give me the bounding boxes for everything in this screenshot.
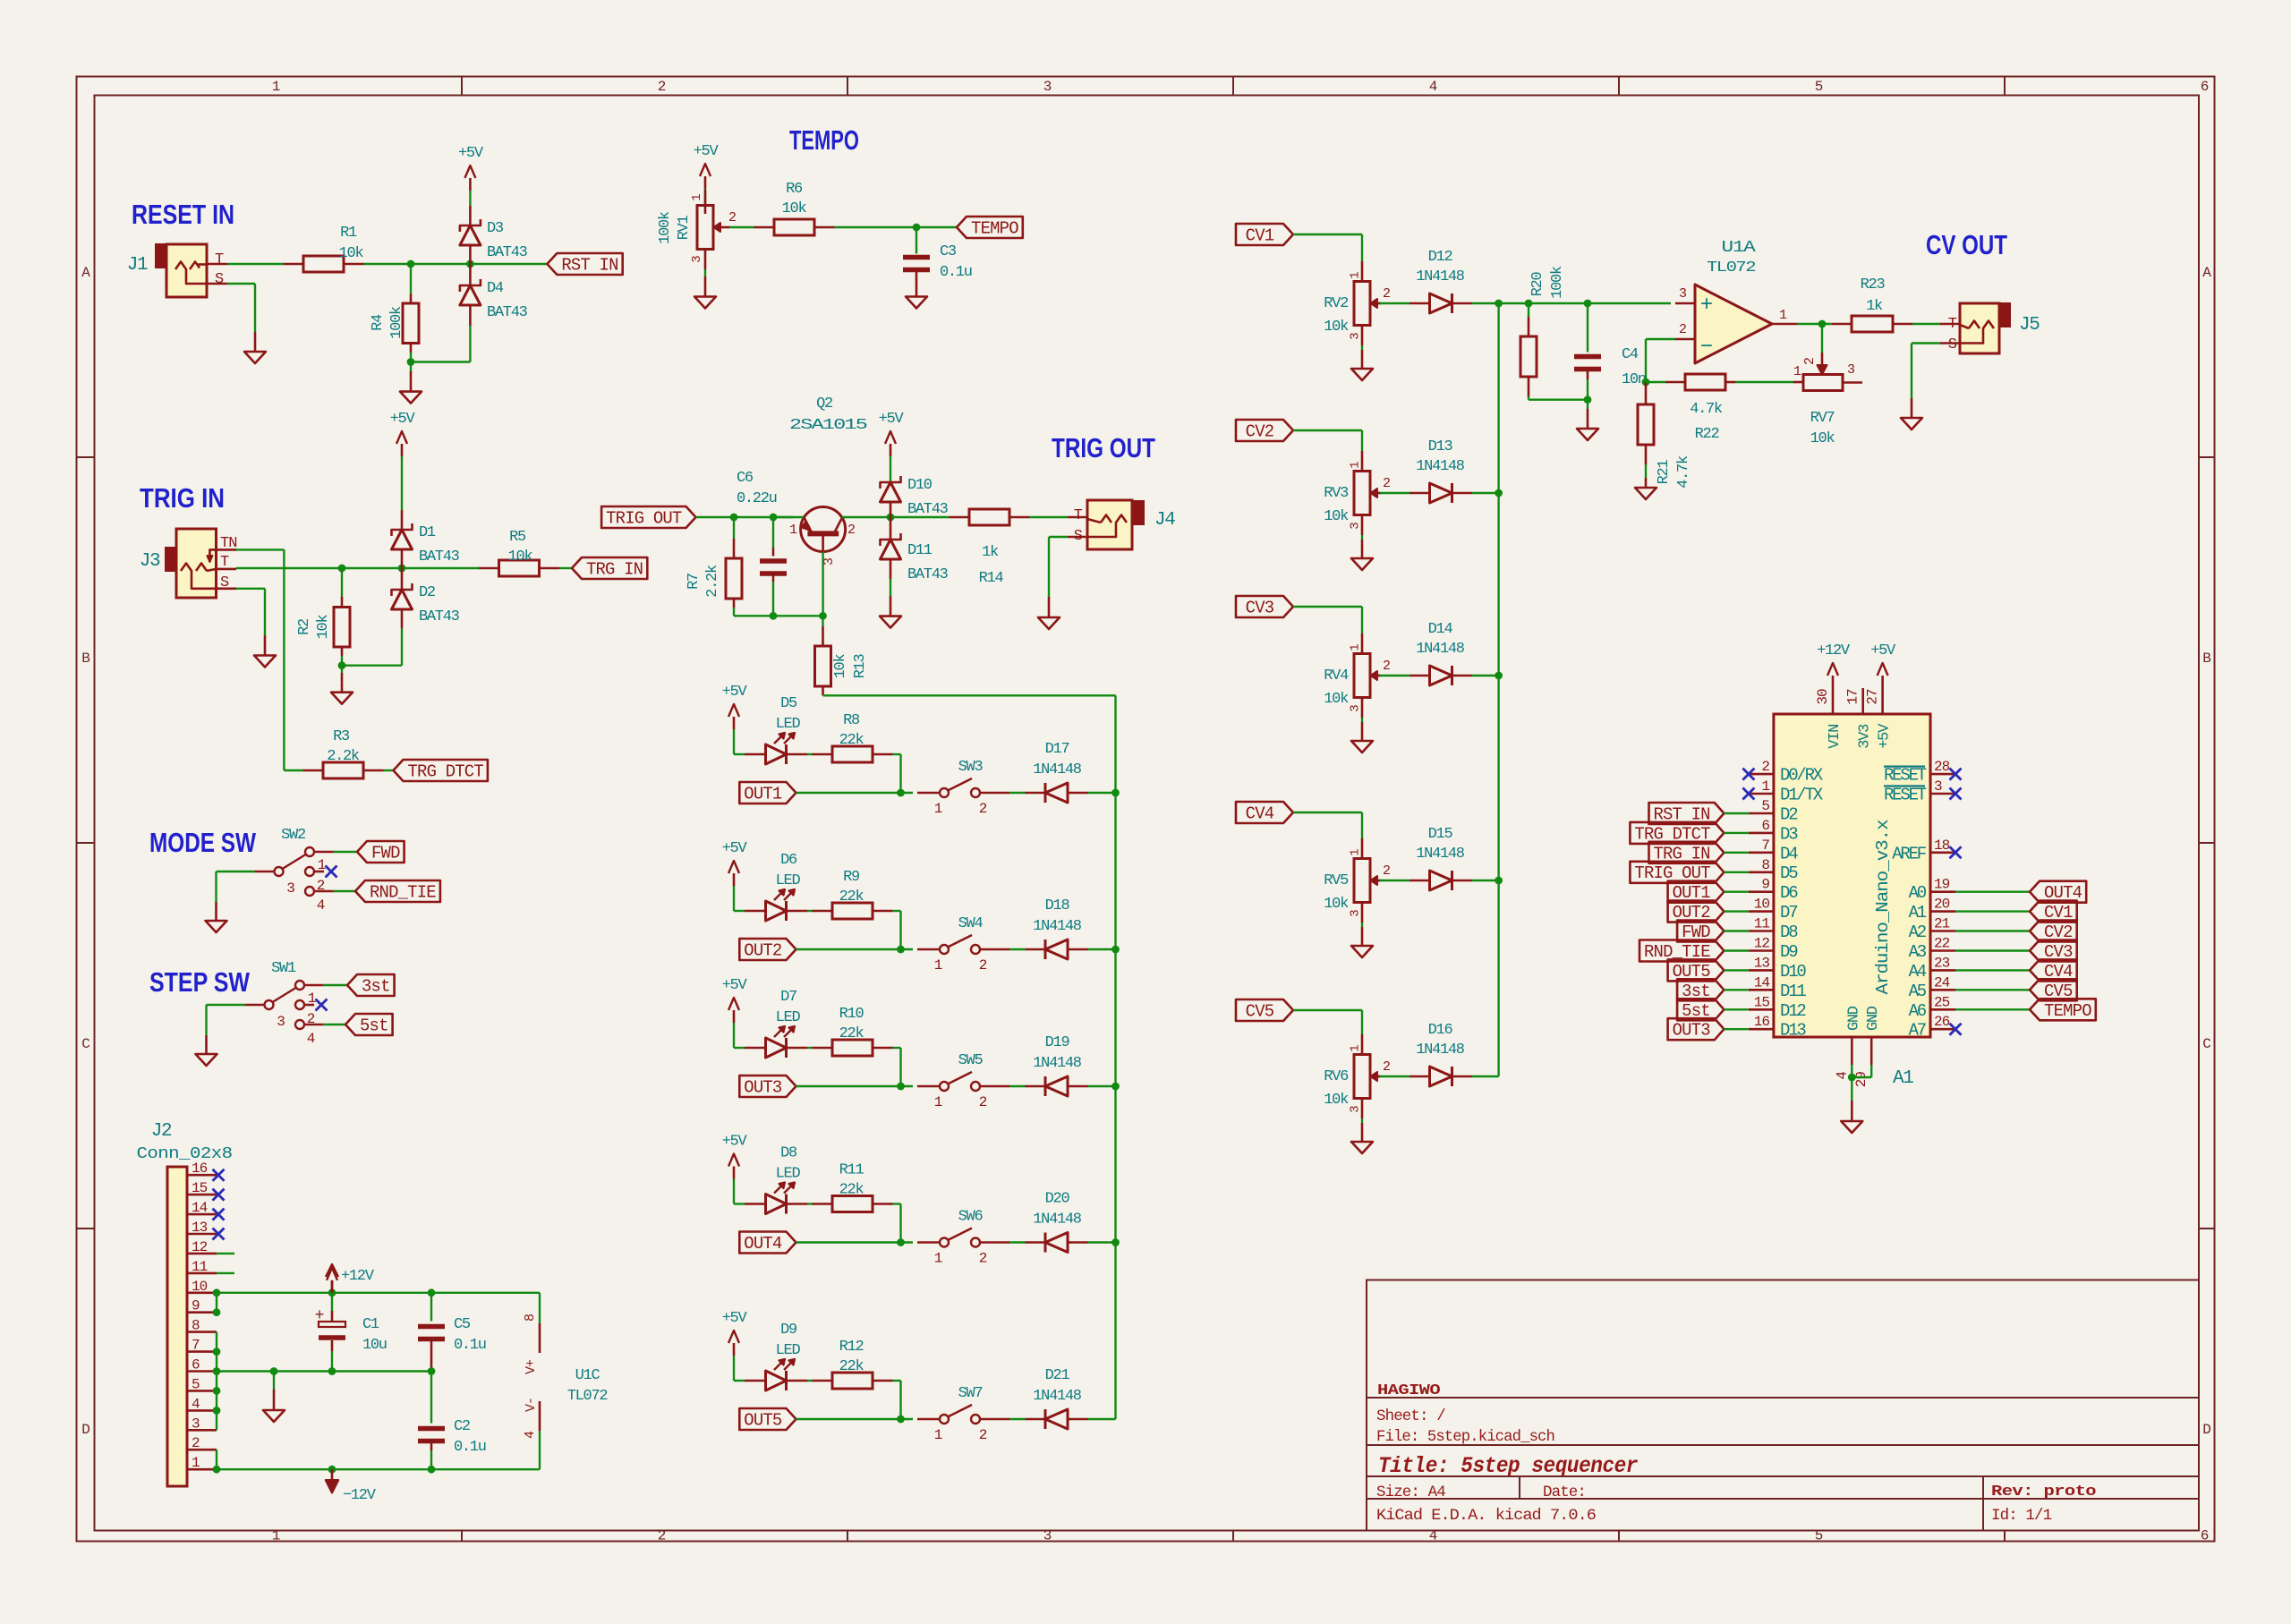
svg-text:D10: D10	[907, 477, 933, 494]
svg-text:10u: 10u	[362, 1337, 387, 1354]
svg-text:1: 1	[1349, 272, 1363, 279]
svg-text:1: 1	[1779, 308, 1787, 323]
svg-text:18: 18	[1934, 838, 1950, 854]
svg-text:A4: A4	[1909, 962, 1927, 982]
svg-text:6: 6	[1761, 818, 1769, 834]
svg-text:9: 9	[1761, 877, 1769, 893]
svg-text:10k: 10k	[1810, 430, 1835, 447]
svg-text:TL072: TL072	[567, 1388, 608, 1405]
svg-text:BAT43: BAT43	[907, 566, 949, 583]
svg-text:T: T	[1074, 507, 1083, 524]
svg-text:−12V: −12V	[343, 1487, 377, 1504]
svg-text:4: 4	[1429, 79, 1437, 95]
svg-text:1: 1	[1349, 462, 1363, 469]
svg-text:+5V: +5V	[722, 977, 748, 994]
svg-text:25: 25	[1934, 994, 1950, 1010]
svg-text:D0/RX: D0/RX	[1780, 766, 1824, 786]
svg-text:1N4148: 1N4148	[1416, 268, 1465, 285]
svg-text:22: 22	[1934, 936, 1950, 952]
svg-text:RV4: RV4	[1324, 667, 1349, 684]
svg-text:+5V: +5V	[458, 145, 484, 162]
svg-text:10k: 10k	[1324, 319, 1349, 336]
svg-text:22k: 22k	[839, 1025, 864, 1042]
svg-text:D18: D18	[1045, 897, 1070, 914]
svg-text:D13: D13	[1428, 438, 1453, 455]
svg-text:5: 5	[1761, 798, 1769, 814]
svg-text:D4: D4	[487, 280, 504, 297]
svg-text:TEMPO: TEMPO	[971, 219, 1018, 239]
svg-text:TL072: TL072	[1707, 259, 1755, 276]
svg-text:10k: 10k	[1324, 691, 1349, 708]
svg-text:1: 1	[1349, 644, 1363, 651]
svg-text:D7: D7	[1780, 903, 1797, 923]
svg-text:D6: D6	[780, 852, 797, 869]
svg-text:2: 2	[979, 957, 987, 974]
svg-text:D1/TX: D1/TX	[1780, 786, 1824, 805]
svg-text:V+: V+	[524, 1359, 539, 1374]
svg-text:C: C	[2202, 1036, 2210, 1052]
svg-text:23: 23	[1934, 955, 1950, 971]
svg-text:V-: V-	[524, 1398, 539, 1412]
svg-text:14: 14	[1754, 974, 1770, 991]
svg-text:1N4148: 1N4148	[1416, 1042, 1465, 1059]
svg-text:+5V: +5V	[722, 1310, 748, 1327]
svg-text:CV3: CV3	[1246, 599, 1274, 618]
svg-text:16: 16	[1754, 1014, 1770, 1030]
svg-text:1N4148: 1N4148	[1033, 1212, 1082, 1229]
svg-text:7: 7	[192, 1338, 200, 1354]
svg-text:R20: R20	[1529, 272, 1546, 297]
svg-text:+: +	[1700, 293, 1713, 318]
svg-text:7: 7	[1761, 838, 1769, 854]
svg-text:D14: D14	[1428, 621, 1453, 638]
svg-text:VIN: VIN	[1827, 725, 1844, 749]
svg-text:RV5: RV5	[1324, 872, 1349, 889]
svg-text:TEMPO: TEMPO	[2044, 1001, 2091, 1021]
svg-text:B: B	[81, 650, 89, 667]
svg-text:RV3: RV3	[1324, 485, 1349, 502]
svg-text:1: 1	[1793, 364, 1801, 379]
svg-text:3: 3	[1349, 705, 1363, 712]
svg-text:2: 2	[979, 1094, 987, 1110]
svg-text:S: S	[215, 271, 224, 288]
svg-text:2: 2	[658, 79, 666, 95]
svg-text:J5: J5	[2019, 315, 2040, 336]
svg-text:3: 3	[690, 256, 704, 263]
svg-text:1k: 1k	[982, 544, 999, 561]
svg-text:D20: D20	[1045, 1191, 1070, 1208]
svg-text:D8: D8	[780, 1145, 797, 1162]
svg-text:FWD: FWD	[371, 844, 400, 863]
svg-text:10k: 10k	[1324, 508, 1349, 525]
svg-text:3: 3	[1679, 286, 1687, 302]
svg-text:2: 2	[1679, 322, 1686, 337]
svg-text:0.1u: 0.1u	[454, 1439, 486, 1456]
svg-text:R23: R23	[1861, 276, 1886, 293]
svg-text:D2: D2	[419, 584, 435, 601]
svg-text:STEP SW: STEP SW	[149, 966, 251, 998]
svg-text:3: 3	[286, 880, 294, 897]
svg-text:D13: D13	[1780, 1021, 1806, 1041]
svg-text:LED: LED	[776, 1166, 801, 1183]
svg-text:1: 1	[934, 1427, 942, 1443]
svg-text:J2: J2	[151, 1121, 172, 1142]
svg-text:+: +	[315, 1307, 325, 1325]
svg-text:10k: 10k	[1324, 896, 1349, 913]
svg-text:A5: A5	[1909, 982, 1927, 1001]
svg-text:T: T	[215, 251, 224, 268]
svg-text:4: 4	[307, 1031, 315, 1047]
svg-text:10k: 10k	[508, 548, 533, 565]
svg-text:D5: D5	[1780, 863, 1798, 883]
svg-text:Conn_02x8: Conn_02x8	[137, 1145, 233, 1163]
svg-text:3: 3	[1043, 1528, 1052, 1544]
svg-text:D7: D7	[780, 989, 796, 1006]
svg-text:J1: J1	[127, 255, 148, 276]
svg-text:4: 4	[192, 1396, 200, 1412]
svg-text:TRG DTCT: TRG DTCT	[408, 762, 484, 782]
svg-text:OUT2: OUT2	[744, 941, 782, 961]
svg-text:Title: 5step sequencer: Title: 5step sequencer	[1378, 1453, 1638, 1479]
svg-text:J4: J4	[1154, 510, 1175, 531]
svg-text:2: 2	[847, 523, 855, 538]
svg-text:U1A: U1A	[1722, 239, 1757, 257]
svg-text:2: 2	[1383, 659, 1390, 674]
svg-text:2.2k: 2.2k	[704, 565, 721, 598]
svg-text:+5V: +5V	[879, 411, 905, 428]
svg-text:12: 12	[1754, 936, 1770, 952]
svg-text:File: 5step.kicad_sch: File: 5step.kicad_sch	[1376, 1428, 1554, 1446]
svg-text:3: 3	[1043, 79, 1052, 95]
svg-text:D5: D5	[780, 695, 797, 712]
svg-text:28: 28	[1934, 759, 1950, 775]
svg-text:Date:: Date:	[1543, 1484, 1586, 1501]
svg-text:BAT43: BAT43	[487, 304, 528, 321]
svg-text:D16: D16	[1428, 1022, 1453, 1039]
svg-text:1k: 1k	[1866, 298, 1883, 315]
svg-text:10k: 10k	[782, 200, 807, 217]
svg-text:1N4148: 1N4148	[1033, 1055, 1082, 1072]
svg-text:C3: C3	[940, 243, 957, 260]
svg-text:CV1: CV1	[1246, 226, 1274, 246]
svg-text:GND: GND	[1845, 1006, 1862, 1031]
svg-text:−: −	[1700, 336, 1713, 360]
svg-text:RST IN: RST IN	[561, 256, 617, 276]
svg-text:3: 3	[1349, 1106, 1363, 1113]
svg-text:2.2k: 2.2k	[327, 748, 360, 765]
svg-text:OUT3: OUT3	[744, 1078, 782, 1098]
svg-text:C: C	[81, 1036, 89, 1052]
svg-text:2: 2	[1383, 286, 1390, 302]
svg-text:8: 8	[1761, 857, 1769, 873]
svg-text:D11: D11	[907, 542, 933, 559]
svg-text:+5V: +5V	[722, 684, 748, 701]
svg-text:1: 1	[934, 1094, 942, 1110]
svg-text:D: D	[2202, 1422, 2210, 1438]
svg-text:RV7: RV7	[1810, 410, 1835, 427]
svg-text:D9: D9	[1780, 942, 1798, 962]
svg-text:AREF: AREF	[1892, 844, 1927, 863]
svg-text:24: 24	[1934, 974, 1950, 991]
svg-text:3: 3	[1349, 523, 1363, 530]
svg-text:LED: LED	[776, 1342, 801, 1359]
svg-text:15: 15	[192, 1180, 208, 1196]
svg-text:3st: 3st	[362, 977, 390, 997]
svg-text:8: 8	[523, 1314, 538, 1322]
svg-text:Rev: proto: Rev: proto	[1991, 1484, 2096, 1501]
svg-text:SW2: SW2	[281, 827, 305, 844]
svg-text:SW5: SW5	[958, 1052, 984, 1069]
svg-text:TRIG OUT: TRIG OUT	[606, 509, 682, 529]
svg-text:2: 2	[1383, 1059, 1390, 1075]
svg-text:10k: 10k	[1324, 1092, 1349, 1109]
svg-text:R10: R10	[839, 1006, 864, 1023]
svg-text:1: 1	[934, 801, 942, 817]
svg-text:C5: C5	[454, 1316, 471, 1333]
svg-text:A: A	[2202, 265, 2211, 281]
svg-text:+12V: +12V	[341, 1268, 375, 1285]
svg-text:D17: D17	[1045, 741, 1069, 758]
svg-text:30: 30	[1815, 689, 1831, 705]
svg-text:+5V: +5V	[694, 143, 720, 160]
svg-text:2: 2	[658, 1528, 666, 1544]
svg-text:D: D	[81, 1422, 89, 1438]
svg-text:U1C: U1C	[575, 1367, 600, 1384]
svg-text:R8: R8	[843, 712, 860, 729]
svg-text:16: 16	[192, 1161, 208, 1177]
svg-text:4.7k: 4.7k	[1675, 455, 1692, 489]
svg-text:4.7k: 4.7k	[1690, 401, 1723, 418]
svg-text:5st: 5st	[360, 1016, 388, 1036]
svg-text:OUT1: OUT1	[744, 785, 782, 804]
svg-text:A7: A7	[1909, 1021, 1926, 1041]
svg-text:+5V: +5V	[722, 840, 748, 857]
svg-text:12: 12	[192, 1239, 208, 1255]
svg-text:3: 3	[277, 1014, 285, 1030]
svg-text:A2: A2	[1909, 923, 1927, 942]
svg-text:SW1: SW1	[271, 960, 296, 977]
svg-text:GND: GND	[1865, 1006, 1882, 1031]
svg-text:22k: 22k	[839, 1358, 864, 1375]
svg-text:MODE SW: MODE SW	[149, 827, 257, 858]
svg-text:CV5: CV5	[1246, 1002, 1274, 1022]
svg-text:R6: R6	[786, 181, 803, 198]
svg-text:R1: R1	[340, 225, 357, 242]
svg-text:SW4: SW4	[958, 915, 984, 932]
svg-text:11: 11	[192, 1259, 208, 1275]
svg-text:100k: 100k	[388, 306, 405, 339]
svg-text:BAT43: BAT43	[419, 608, 460, 625]
svg-text:R2: R2	[296, 619, 313, 635]
svg-text:RESET IN: RESET IN	[132, 199, 234, 230]
svg-text:RESET: RESET	[1884, 766, 1927, 786]
svg-text:R14: R14	[979, 570, 1004, 587]
svg-text:3: 3	[1934, 778, 1942, 795]
svg-text:1: 1	[690, 194, 704, 201]
svg-text:BAT43: BAT43	[419, 548, 460, 565]
svg-text:22k: 22k	[839, 732, 864, 749]
svg-text:KiCad E.D.A. kicad 7.0.6: KiCad E.D.A. kicad 7.0.6	[1376, 1507, 1596, 1525]
svg-text:1: 1	[934, 1251, 942, 1267]
svg-text:26: 26	[1934, 1014, 1950, 1030]
svg-text:2: 2	[979, 1427, 987, 1443]
svg-text:TEMPO: TEMPO	[789, 124, 859, 156]
svg-text:D3: D3	[487, 220, 504, 237]
svg-text:R5: R5	[509, 529, 526, 546]
svg-text:1N4148: 1N4148	[1033, 761, 1082, 778]
svg-text:1: 1	[789, 523, 797, 538]
svg-text:D2: D2	[1780, 805, 1798, 825]
svg-text:1: 1	[272, 1528, 280, 1544]
svg-text:D4: D4	[1780, 844, 1798, 863]
svg-text:LED: LED	[776, 872, 801, 889]
svg-text:D12: D12	[1428, 249, 1452, 266]
svg-text:R7: R7	[686, 574, 703, 590]
svg-text:15: 15	[1754, 994, 1770, 1010]
svg-text:A1: A1	[1893, 1068, 1913, 1089]
svg-text:RESET: RESET	[1884, 786, 1927, 805]
svg-text:10: 10	[1754, 897, 1770, 913]
svg-text:R9: R9	[843, 869, 860, 886]
svg-text:2: 2	[307, 1011, 315, 1027]
svg-text:1N4148: 1N4148	[1033, 1388, 1082, 1405]
svg-text:2: 2	[1761, 759, 1769, 775]
svg-text:R21: R21	[1656, 460, 1673, 485]
svg-text:1N4148: 1N4148	[1416, 458, 1465, 475]
svg-text:1N4148: 1N4148	[1416, 846, 1465, 863]
svg-text:8: 8	[192, 1318, 200, 1334]
svg-text:+12V: +12V	[1817, 642, 1851, 659]
svg-text:+5V: +5V	[722, 1134, 748, 1151]
svg-text:Sheet: /: Sheet: /	[1376, 1407, 1445, 1425]
svg-text:D1: D1	[419, 524, 436, 541]
svg-text:29: 29	[1853, 1072, 1869, 1088]
svg-text:C4: C4	[1622, 346, 1639, 363]
svg-text:SW3: SW3	[958, 759, 984, 776]
svg-text:100k: 100k	[657, 211, 674, 244]
svg-text:4: 4	[1834, 1072, 1850, 1080]
svg-text:2: 2	[979, 801, 987, 817]
svg-text:3: 3	[1847, 362, 1855, 378]
svg-text:R3: R3	[333, 728, 350, 745]
svg-text:1N4148: 1N4148	[1033, 918, 1082, 935]
svg-text:2: 2	[979, 1251, 987, 1267]
svg-text:R12: R12	[839, 1339, 864, 1356]
svg-text:Q2: Q2	[816, 395, 832, 412]
svg-text:13: 13	[1754, 955, 1770, 971]
svg-text:20: 20	[1934, 897, 1950, 913]
svg-text:LED: LED	[776, 716, 801, 733]
svg-text:OUT4: OUT4	[744, 1234, 782, 1254]
svg-text:17: 17	[1845, 689, 1861, 705]
svg-text:D12: D12	[1780, 1001, 1806, 1021]
svg-text:OUT3: OUT3	[1673, 1021, 1711, 1041]
svg-text:R11: R11	[839, 1162, 864, 1179]
svg-text:10k: 10k	[832, 654, 849, 679]
svg-text:TRG IN: TRG IN	[586, 560, 643, 580]
svg-text:0.1u: 0.1u	[454, 1337, 486, 1354]
svg-text:1: 1	[272, 79, 280, 95]
svg-text:1: 1	[318, 857, 326, 873]
svg-text:2: 2	[728, 210, 736, 225]
svg-text:A: A	[81, 265, 90, 281]
svg-text:0.1u: 0.1u	[940, 264, 972, 281]
svg-text:10: 10	[192, 1279, 208, 1295]
svg-text:1: 1	[1349, 1045, 1363, 1052]
svg-text:D8: D8	[1780, 923, 1798, 942]
svg-text:3: 3	[1349, 333, 1363, 340]
svg-text:D19: D19	[1045, 1034, 1070, 1051]
svg-text:D21: D21	[1045, 1367, 1070, 1384]
svg-text:CV OUT: CV OUT	[1926, 229, 2007, 260]
svg-text:19: 19	[1934, 877, 1950, 893]
svg-text:1: 1	[934, 957, 942, 974]
svg-text:+5V: +5V	[390, 411, 416, 428]
svg-text:100k: 100k	[1549, 266, 1566, 299]
svg-text:2: 2	[1802, 358, 1818, 365]
svg-text:21: 21	[1934, 916, 1950, 932]
svg-text:1N4148: 1N4148	[1416, 641, 1465, 658]
svg-text:5: 5	[192, 1376, 200, 1392]
svg-text:1: 1	[192, 1455, 200, 1471]
svg-text:HAGIWO: HAGIWO	[1377, 1382, 1440, 1399]
svg-text:10n: 10n	[1622, 371, 1646, 388]
svg-text:2: 2	[1383, 476, 1390, 491]
svg-text:1: 1	[1349, 849, 1363, 856]
svg-text:D10: D10	[1780, 962, 1806, 982]
svg-text:11: 11	[1754, 916, 1770, 932]
svg-text:3V3: 3V3	[1857, 724, 1874, 749]
svg-text:LED: LED	[776, 1009, 801, 1026]
svg-text:R4: R4	[370, 314, 387, 331]
svg-text:A0: A0	[1909, 883, 1927, 903]
svg-text:J3: J3	[140, 551, 160, 572]
svg-text:1: 1	[308, 991, 316, 1007]
svg-text:D6: D6	[1780, 883, 1798, 903]
svg-text:TRIG IN: TRIG IN	[140, 482, 225, 514]
svg-text:3: 3	[192, 1416, 200, 1432]
svg-text:TRIG OUT: TRIG OUT	[1052, 432, 1155, 463]
svg-text:CV4: CV4	[1246, 804, 1274, 824]
svg-text:+5V: +5V	[1877, 723, 1894, 749]
svg-text:10k: 10k	[339, 245, 364, 262]
svg-text:6: 6	[2201, 1528, 2209, 1544]
svg-text:C6: C6	[737, 470, 754, 487]
svg-text:B: B	[2202, 650, 2210, 667]
svg-text:4: 4	[523, 1431, 538, 1439]
svg-text:22k: 22k	[839, 1182, 864, 1199]
svg-text:+5V: +5V	[1870, 642, 1896, 659]
svg-text:2: 2	[317, 878, 325, 894]
svg-text:A1: A1	[1909, 903, 1927, 923]
svg-text:D9: D9	[780, 1322, 797, 1339]
svg-text:SW6: SW6	[958, 1209, 984, 1226]
svg-text:0.22u: 0.22u	[737, 490, 777, 507]
svg-text:C1: C1	[362, 1316, 379, 1333]
svg-text:S: S	[1948, 336, 1957, 353]
svg-text:1: 1	[1761, 778, 1769, 795]
svg-text:RV6: RV6	[1324, 1068, 1349, 1085]
svg-text:RV2: RV2	[1324, 295, 1348, 312]
svg-text:BAT43: BAT43	[487, 244, 528, 261]
svg-text:2SA1015: 2SA1015	[789, 417, 868, 434]
svg-text:Id: 1/1: Id: 1/1	[1991, 1507, 2052, 1525]
svg-text:CV2: CV2	[1246, 422, 1274, 442]
svg-text:22k: 22k	[839, 889, 864, 906]
svg-text:R22: R22	[1695, 426, 1719, 443]
svg-text:27: 27	[1865, 689, 1881, 705]
svg-text:5: 5	[1815, 79, 1823, 95]
